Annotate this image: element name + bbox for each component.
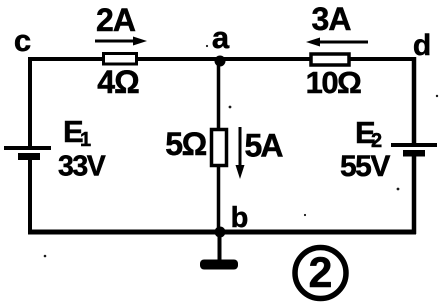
svg-text:2: 2 xyxy=(309,249,333,297)
svg-text:c: c xyxy=(14,23,31,58)
svg-text:5Ω: 5Ω xyxy=(165,126,206,162)
resistor 4Ω xyxy=(97,54,139,101)
svg-text:10Ω: 10Ω xyxy=(306,65,361,100)
svg-text:2: 2 xyxy=(371,130,382,152)
svg-text:4Ω: 4Ω xyxy=(97,64,139,100)
wire: middle branch vertical xyxy=(217,61,221,232)
svg-text:33V: 33V xyxy=(58,151,106,183)
node b xyxy=(215,202,249,238)
scan specks xyxy=(44,45,438,257)
svg-text:5A: 5A xyxy=(245,128,284,164)
resistor 10Ω xyxy=(306,54,361,100)
wire: right branch vertical xyxy=(412,57,417,234)
figure number 2 (circled) xyxy=(295,248,346,299)
svg-text:a: a xyxy=(212,20,230,55)
node d xyxy=(413,29,431,62)
battery E1 xyxy=(4,114,106,183)
wire: bottom wire xyxy=(28,230,416,235)
current arrow 2A xyxy=(95,2,147,46)
battery E2 xyxy=(340,115,437,183)
svg-text:55V: 55V xyxy=(340,150,390,183)
svg-text:1: 1 xyxy=(80,129,91,151)
svg-text:d: d xyxy=(413,29,431,62)
svg-text:2A: 2A xyxy=(96,2,136,38)
current arrow 3A xyxy=(306,1,368,47)
node a xyxy=(212,20,230,67)
wire: left branch vertical xyxy=(28,57,32,234)
wire: top wire c-a-d xyxy=(28,57,416,61)
svg-text:b: b xyxy=(231,202,249,234)
current arrow 5A xyxy=(236,127,284,179)
svg-text:3A: 3A xyxy=(312,1,352,37)
resistor 5Ω xyxy=(165,126,226,166)
node c xyxy=(14,23,31,58)
ground xyxy=(200,236,238,270)
